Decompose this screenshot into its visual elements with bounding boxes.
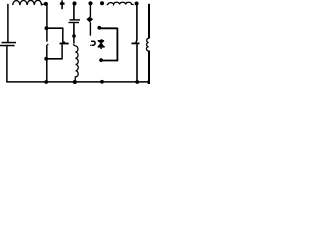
node: stray mark in line break [47, 44, 48, 45]
phones / output bar (right edge thick conductor) [148, 4, 150, 39]
capacitor C4 plate (merged bold bar) [132, 43, 140, 45]
terminal: antenna post (cross / dagger) [61, 0, 63, 9]
terminal dot: L2 left end [100, 1, 104, 5]
inductor L1 (top-left coil, 4 loops) [13, 0, 44, 5]
wire diode to detector [89, 22, 91, 35]
wire antenna lead-in (left vertical, upper) [7, 4, 9, 42]
terminal dot: detector branch top [88, 1, 92, 5]
wire C4 branch upper [136, 4, 138, 41]
node: series branch junction dot [72, 34, 76, 38]
node: tuned line to rail junction dot [44, 80, 48, 84]
node: rail junction dot below detector [100, 80, 104, 84]
inductor L4 (right coil, 3 loops bulging left) [146, 38, 148, 51]
wire C4 branch lower [136, 44, 138, 82]
diode D1 (filled diamond / arrow) [86, 17, 93, 23]
crystal detector (hourglass between bars) [98, 40, 104, 42]
node: L2 right end dot [135, 2, 139, 6]
wire C2 bottom return (horizontal, y=59) [46, 58, 62, 60]
terminal dot: series branch top [72, 1, 76, 5]
node: L3 to rail junction dot [73, 80, 77, 84]
wire junction to L3 [73, 36, 75, 44]
node: phones loop upper dot [97, 26, 101, 30]
wire series branch (dot to C3) [73, 4, 75, 20]
wire C3 to junction [73, 23, 75, 35]
wire tap to C2 (horizontal, y=28) [46, 27, 62, 29]
capacitor C1 top plate [2, 42, 17, 44]
node: C4 to rail junction dot [135, 80, 139, 84]
node: tap dot lower left [44, 57, 48, 61]
node: phones loop lower dot [99, 58, 103, 62]
wire phones loop right vertical [116, 28, 118, 61]
inductor L3 (vertical coil, 5 loops bulging right) [73, 44, 78, 80]
capacitor C3 bottom plate [69, 22, 80, 23]
inductor L2 (top-right coil, 4 loops) [107, 2, 134, 5]
wire tuned-circuit vertical (upper segment) [46, 4, 48, 42]
node: L1 / tuning line junction dot [44, 2, 48, 6]
wire C2 branch vertical (below plate) [61, 44, 63, 58]
detector cup (open arc glyph) [91, 41, 95, 45]
wire phones loop bottom (y=60) [102, 60, 118, 62]
wire C4 jog [135, 40, 138, 43]
corner: right bar to rail [148, 81, 151, 84]
wire C1 to ground rail (left vertical, lower) [6, 46, 8, 82]
wire C2 branch vertical (above plate) [62, 28, 64, 43]
capacitor C1 bottom plate [0, 45, 15, 47]
ground rail (bottom bus) [6, 81, 150, 83]
capacitor C2 plate (merged bold bar) [60, 43, 69, 45]
capacitor C3 top plate [70, 19, 81, 20]
wire phones loop top (y=28) [99, 27, 117, 29]
node A: tap dot upper left [45, 26, 49, 30]
wire tuned-circuit vertical (lower segment, after scan break) [46, 45, 48, 82]
wire detector branch upper [89, 3, 91, 17]
